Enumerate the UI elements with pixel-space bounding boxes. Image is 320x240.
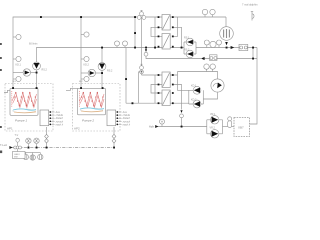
gauge P1.2 <box>13 56 21 61</box>
wire mid vertical x141.5 <box>141 17 143 75</box>
svg-text:KD.1: KD.1 <box>16 64 22 67</box>
wire B-return line y103 <box>126 102 189 104</box>
wire A-line y75 <box>142 74 163 76</box>
heater left edge dash tank2 <box>78 91 80 107</box>
wire pump2 check out <box>96 72 102 74</box>
gauge P1.3 <box>13 76 21 81</box>
svg-text:MIX: MIX <box>14 157 18 159</box>
wire T-Leit dash-dot line <box>11 147 114 149</box>
terminal block pump1 <box>40 110 49 126</box>
wire pump2 discharge <box>101 48 103 89</box>
terminal leader lines pump2 <box>118 112 121 124</box>
directional valve V3 <box>162 72 170 88</box>
wire mid vertical x135 <box>134 17 136 48</box>
check valve VR.2 <box>211 130 219 138</box>
valve cluster top <box>137 11 146 20</box>
T-Leit motor b <box>30 153 35 161</box>
temperature curve tank1 orange <box>14 112 36 113</box>
wire T-line right <box>204 58 258 60</box>
labels pump1 terminals <box>55 111 64 126</box>
svg-text:Pumpe 2: Pumpe 2 <box>82 119 94 123</box>
level indicator top right <box>251 12 254 21</box>
coupling pump2 a <box>112 134 116 138</box>
wire top suction header <box>13 17 226 88</box>
terminal leader lines pump1 <box>51 112 54 124</box>
oil surface ellipse tank1 <box>13 109 36 113</box>
heater left edge dash tank1 <box>11 91 13 107</box>
check valve KP1 <box>23 69 30 76</box>
wire valve routing right top x177 <box>173 17 178 36</box>
gauge P2.3 <box>81 76 89 81</box>
svg-text:VR.2: VR.2 <box>210 126 216 129</box>
junction dots <box>40 16 42 18</box>
lower branch line <box>25 152 40 154</box>
wire RS loop <box>184 42 196 54</box>
wire PT bypass x253 <box>252 48 254 59</box>
wire P-line left <box>37 48 185 89</box>
svg-text:RS.2: RS.2 <box>42 69 48 72</box>
svg-text:KD.2: KD.2 <box>84 64 90 67</box>
gauge cooler b <box>210 9 215 17</box>
wire valve routing left top x155 <box>154 17 156 48</box>
wire P-line right <box>196 47 257 49</box>
wire pump1 check out <box>31 72 37 74</box>
flow arrow T line <box>201 57 205 60</box>
wire valve routing right top x181 <box>173 27 182 47</box>
temperature curve tank1 cyan <box>13 109 36 110</box>
svg-text:XB7: XB7 <box>238 126 244 130</box>
accumulator <box>228 117 232 128</box>
wire flow meter stem <box>203 92 217 99</box>
pump unit enclosure AP2 <box>73 84 121 132</box>
check valve RS.2 <box>186 50 194 58</box>
cooler <box>220 27 234 41</box>
gauge cooler a <box>202 9 207 17</box>
wire A-leit line <box>156 126 207 128</box>
directional valve V4 <box>162 90 170 106</box>
svg-text:RS.2: RS.2 <box>107 70 113 73</box>
wire drain to A-line <box>181 118 183 127</box>
valve cluster mid <box>140 64 144 74</box>
heater coil tank1 <box>12 93 37 108</box>
svg-text:VR.1: VR.1 <box>210 113 216 116</box>
wire pump1 check feed <box>13 72 23 74</box>
XB7 box <box>234 118 250 137</box>
gauge P1.1 <box>13 34 21 39</box>
wire VR loop <box>207 120 223 134</box>
gauge A-line <box>160 119 165 126</box>
svg-text:KD.1: KD.1 <box>191 85 197 88</box>
check valve RS.1 <box>186 38 194 46</box>
svg-text:Ach: Ach <box>149 125 154 129</box>
flow meter <box>211 79 224 92</box>
T-Leit motor c <box>38 153 43 160</box>
gauge P2.1 <box>81 32 89 37</box>
gauge mid P b <box>123 41 128 48</box>
wire mid vertical x126 <box>125 48 127 104</box>
terminal block pump2 <box>107 110 116 126</box>
wire valve routing right mid x177 <box>170 72 189 91</box>
gauge mid P a <box>115 41 120 48</box>
wire pump2 check feed <box>81 72 88 74</box>
svg-text:nach k: nach k <box>56 123 64 126</box>
svg-text:AP1: AP1 <box>7 126 13 130</box>
svg-text:RS.2: RS.2 <box>184 49 190 52</box>
P-line filter component <box>239 44 248 50</box>
drain vent mid <box>144 49 148 56</box>
terminal bullets pump1 <box>49 111 51 113</box>
check valve VR.1 <box>211 116 219 124</box>
cooler outlet arrow <box>225 42 228 45</box>
coupling pump1 a <box>45 134 49 138</box>
wire A-leit to accumulator and XB7 <box>223 126 235 128</box>
flow arrow A-Leit <box>155 125 158 128</box>
directional valve V1 <box>162 15 170 31</box>
wire valve routing right mid x181 <box>173 85 182 104</box>
svg-text:LABO: LABO <box>14 153 20 156</box>
wire shuttle loop <box>189 90 204 104</box>
gauge P right b <box>217 40 222 48</box>
coupling pump2 b <box>112 139 116 143</box>
wire T-drain from P <box>146 56 201 59</box>
svg-text:KD.2: KD.2 <box>191 98 197 101</box>
wire cooler drop <box>225 17 227 27</box>
wire flow meter feed line <box>178 72 218 80</box>
shuttle check KD.1 <box>193 86 201 94</box>
directional valve V2 <box>162 34 170 50</box>
gauge flow meter a <box>204 64 209 72</box>
wire coupling drop pump1 <box>46 127 48 148</box>
svg-text:60 l/min: 60 l/min <box>29 43 38 46</box>
pump unit enclosure AP1 <box>5 84 53 132</box>
wire valve routing left mid x151 <box>151 85 162 94</box>
wire drain below B-line <box>181 103 183 109</box>
tank 1 <box>10 88 38 115</box>
wire tank1 inlet stub <box>4 90 10 92</box>
terminal bullets pump2 <box>116 111 118 113</box>
flow arrow T-Leit <box>9 146 12 149</box>
instrument above T-line a <box>26 138 31 147</box>
svg-text:nach k: nach k <box>123 123 131 126</box>
wire coupling drop pump2 <box>113 127 115 148</box>
oil surface ellipse tank2 <box>80 108 103 112</box>
check valve RS2.2 down <box>98 63 106 71</box>
svg-text:T-V: T-V <box>15 134 19 137</box>
valve port dots <box>158 16 174 104</box>
shuttle check KD.2 <box>193 100 201 108</box>
svg-text:7 mal dolphin: 7 mal dolphin <box>242 3 258 7</box>
check valve KP2 <box>88 69 95 76</box>
T-Leit motor a <box>23 153 28 160</box>
svg-text:Pumpe 1: Pumpe 1 <box>15 119 27 123</box>
wire right rail <box>250 48 258 125</box>
drain vent B-line <box>180 110 184 118</box>
wire valve routing left mid x155 <box>154 75 156 103</box>
flow arrow P line <box>231 46 235 49</box>
edge tick marks <box>0 43 2 153</box>
gauge flow meter b <box>210 64 215 72</box>
heater coil tank2 <box>80 93 105 108</box>
svg-text:RS.1: RS.1 <box>184 37 190 40</box>
wire valve routing left top x151 <box>151 27 162 36</box>
wire cluster feed <box>139 71 140 73</box>
coupling pump1 b <box>45 139 49 143</box>
wire tank2 inlet stub <box>66 88 78 90</box>
labo box <box>13 149 26 158</box>
labo box text <box>14 153 20 159</box>
sensor on P line <box>210 41 216 47</box>
gauge P2.2 <box>81 56 89 61</box>
temperature curve tank2 cyan <box>80 108 104 109</box>
wire pump2 rail <box>80 17 82 88</box>
instrument above T-line b <box>34 138 39 147</box>
T-Leit hand valve <box>14 138 22 149</box>
wire mid vertical x138.5 <box>138 72 140 103</box>
gauge P right a <box>204 40 209 48</box>
temperature curve tank2 orange <box>81 111 103 112</box>
svg-text:T-Leit: T-Leit <box>0 143 7 147</box>
check valve RS1.2 down <box>33 62 41 70</box>
svg-text:AP2: AP2 <box>74 126 80 130</box>
labels pump2 terminals <box>122 111 131 126</box>
T-line filter component <box>210 55 218 61</box>
tank 2 <box>78 88 106 115</box>
